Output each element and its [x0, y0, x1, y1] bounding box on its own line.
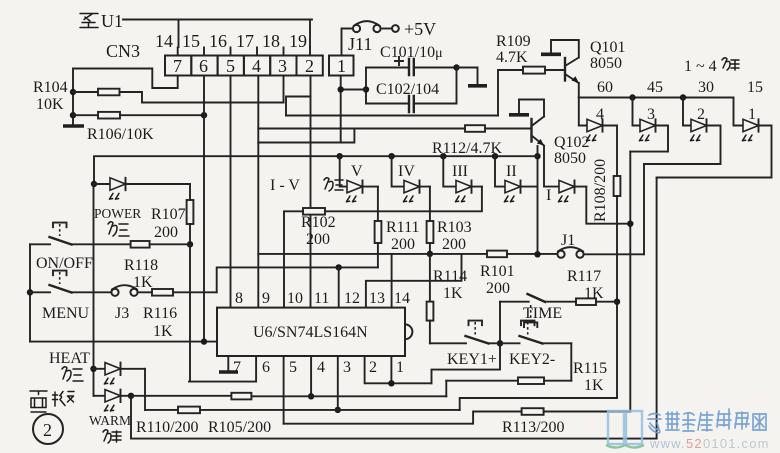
IC U6 body	[217, 308, 412, 356]
svg-text:14: 14	[394, 290, 410, 307]
switch MENU	[30, 271, 111, 322]
svg-text:HEAT: HEAT	[49, 350, 90, 367]
node LED II anode	[492, 153, 498, 159]
wire R105 row	[131, 395, 446, 398]
resistor R104	[98, 89, 120, 96]
svg-text:R113/200: R113/200	[502, 419, 565, 436]
node LED III anode	[440, 153, 446, 159]
svg-text:200: 200	[442, 236, 466, 253]
svg-text:III: III	[452, 163, 468, 180]
resistor R107	[187, 200, 194, 224]
wire bottom row	[131, 396, 657, 439]
terminal +5V	[392, 19, 436, 39]
svg-text:www.: www.	[649, 436, 686, 451]
svg-text:II: II	[506, 163, 517, 180]
node cap left	[363, 86, 369, 92]
node cap right	[453, 64, 459, 70]
label I - V red	[270, 177, 343, 194]
supply bar at Q101	[541, 52, 561, 56]
node R103 on J1 row	[427, 251, 433, 257]
node R106 right on pin6 line	[201, 112, 207, 118]
wire green anode bus	[579, 97, 734, 99]
svg-text:R104: R104	[33, 79, 68, 96]
node U6 pin3 on R110 row	[335, 407, 341, 413]
wire line A riser to R109	[498, 70, 523, 116]
node R118 right	[187, 241, 193, 247]
svg-text:1K: 1K	[584, 285, 604, 302]
node POWER anode	[91, 181, 97, 187]
svg-text:200: 200	[391, 236, 415, 253]
wire R107 bottom	[189, 224, 191, 244]
svg-text:TIME: TIME	[523, 305, 562, 322]
supply bar at Q102	[509, 113, 529, 117]
svg-text:R111: R111	[386, 219, 419, 236]
svg-text:R114: R114	[433, 268, 467, 285]
svg-text:18: 18	[262, 31, 280, 51]
wire cap node to ground	[457, 68, 478, 85]
wire CN3 pin1 down to cap loop and line C	[341, 76, 366, 143]
node R104 left	[70, 89, 76, 95]
node R117 junction	[614, 299, 620, 305]
wire R106 row left	[73, 114, 98, 116]
resistor R106	[98, 112, 120, 119]
wire left LED rail	[93, 184, 95, 396]
wire red anode bus	[94, 156, 538, 184]
svg-text:MENU: MENU	[42, 305, 90, 322]
svg-text:C102/104: C102/104	[376, 81, 439, 98]
svg-text:200: 200	[306, 231, 330, 248]
svg-text:5: 5	[226, 56, 235, 76]
wire Q101 emitter to green bus	[578, 83, 580, 98]
wire U6 pin12 stub	[338, 267, 340, 307]
svg-text:R116: R116	[143, 305, 177, 322]
svg-text:R115: R115	[573, 360, 607, 377]
wire R107 line down to U6 pin6 rail	[189, 244, 191, 381]
ground at C101	[468, 84, 487, 88]
wire line B pin9 branch to R112	[258, 128, 465, 130]
wire R111 bottom to rows	[377, 243, 379, 267]
node HEAT anode	[90, 366, 96, 372]
wire R114 bottom to KEY row	[429, 321, 431, 344]
wire R109 to Q101 base	[545, 69, 565, 71]
svg-text:Q101: Q101	[590, 39, 626, 56]
svg-text:19: 19	[289, 31, 307, 51]
wire R116 right	[173, 291, 217, 293]
wire R108 bottom long drop	[616, 196, 618, 398]
node U6 pin12	[336, 264, 342, 270]
svg-text:R118: R118	[124, 257, 158, 274]
wire R104 row left	[73, 91, 98, 93]
svg-text:R101: R101	[480, 263, 515, 280]
wire U6 pin3 stub	[337, 356, 339, 410]
wire CN3 pin4 drop to U6 pin9	[257, 76, 259, 308]
svg-text:R103: R103	[437, 219, 472, 236]
svg-text:R105/200: R105/200	[208, 419, 271, 436]
svg-text:POWER: POWER	[94, 206, 141, 221]
wire LED IV cathode drop	[429, 187, 431, 221]
wire Q102 collector to supply bar	[519, 100, 544, 117]
connector CN3 pin1 box	[329, 56, 354, 77]
node MENU left	[27, 289, 33, 295]
svg-text:IV: IV	[398, 163, 415, 180]
wire to-U1 top line	[123, 20, 312, 48]
wire U6 pin4 stub	[310, 356, 312, 396]
wire J11 left to CN3 pin1	[342, 29, 353, 56]
svg-text:R117: R117	[567, 268, 601, 285]
schematic number circle	[33, 414, 63, 444]
svg-text:1K: 1K	[153, 323, 173, 340]
wire R110 row	[145, 409, 460, 411]
wire CN3 pin2 jog to line A	[286, 97, 311, 116]
svg-text:U1: U1	[101, 11, 123, 31]
svg-text:1K: 1K	[443, 285, 463, 302]
switch KEY1+	[430, 321, 500, 368]
LED POWER	[94, 178, 190, 199]
wire HEAT cathode drop to R110 row	[144, 369, 146, 410]
ground at R104/R106 rail	[63, 124, 84, 128]
svg-text:2: 2	[43, 420, 52, 440]
resistor R112	[465, 125, 485, 132]
LED II	[495, 156, 538, 202]
svg-text:60: 60	[597, 79, 613, 96]
resistor R114	[427, 302, 434, 321]
svg-text:KEY1+: KEY1+	[447, 351, 497, 368]
svg-text:V: V	[351, 163, 363, 180]
svg-text:R107: R107	[151, 206, 186, 223]
wire left rail top	[29, 244, 31, 341]
resistor R111	[375, 221, 382, 243]
wire LED1 drop to bottom row	[656, 178, 658, 439]
connector CN3 pin ticks	[178, 48, 310, 56]
svg-text:4: 4	[252, 56, 261, 76]
svg-text:I: I	[546, 187, 551, 204]
connector CN3 body	[165, 56, 323, 77]
node U6 pin4 on R105 row	[308, 393, 314, 399]
wire J1 row from U6 pin9	[258, 253, 557, 255]
transistor Q102	[532, 117, 545, 146]
svg-text:1: 1	[337, 56, 346, 76]
watermark url	[649, 436, 770, 451]
wire J1 right to LED2 drop	[584, 253, 644, 255]
svg-text:12: 12	[344, 290, 360, 307]
node Q102 drop on J1 row	[534, 251, 540, 257]
svg-text:3: 3	[647, 106, 655, 123]
LED 1	[657, 98, 772, 178]
svg-text:11: 11	[314, 290, 329, 307]
svg-text:J3: J3	[115, 305, 129, 322]
wire LED3 junction drop	[629, 152, 631, 412]
svg-text:R102: R102	[301, 214, 336, 231]
capacitor C102	[366, 96, 457, 112]
svg-text:I - V: I - V	[270, 177, 300, 194]
wire U6 pin5 to R113 row	[283, 356, 285, 424]
svg-text:R110/200: R110/200	[136, 419, 199, 436]
wire U6 pin13 row	[366, 254, 462, 308]
resistor R101	[487, 251, 507, 258]
wire R110 row riser and row to R108 drop	[460, 398, 617, 410]
wire KEY2 right leg to R115 row	[570, 343, 572, 380]
LED V	[340, 156, 378, 202]
svg-text:J1: J1	[561, 232, 575, 249]
LED III	[443, 156, 482, 202]
wire capacitor loop left side	[365, 68, 367, 104]
node R106 left	[70, 112, 76, 118]
node WARM cathode	[128, 393, 134, 399]
switch TIME	[500, 294, 576, 327]
node LED3 anode	[629, 94, 635, 100]
svg-text:15: 15	[182, 31, 200, 51]
node LED2 anode	[680, 94, 686, 100]
svg-text:52: 52	[686, 436, 703, 451]
wire CN3 pin2 drop to U6 pin11	[310, 76, 312, 308]
switch KEY2-	[500, 321, 571, 368]
node LED IV anode	[388, 153, 394, 159]
node pin6 drop on U6 left row	[201, 338, 207, 344]
wire R106 row right	[120, 114, 204, 116]
label HEAT red	[62, 367, 83, 381]
wire U6 pin14 stub	[391, 254, 393, 308]
node KEY junction	[497, 340, 503, 346]
wire U6 pin6 to R107 rail	[189, 356, 256, 382]
LED I	[544, 146, 586, 202]
svg-text:7: 7	[173, 56, 182, 76]
svg-text:R106/10K: R106/10K	[87, 126, 154, 143]
svg-text:WARM: WARM	[89, 413, 131, 428]
LED HEAT	[94, 363, 146, 384]
wire line C	[258, 129, 354, 143]
LED 3	[630, 98, 668, 152]
wire J11 right to +5V terminal	[381, 28, 392, 30]
watermark site name	[648, 409, 766, 433]
svg-text:10K: 10K	[36, 96, 64, 113]
resistor R117	[576, 298, 596, 305]
label panel	[30, 391, 74, 412]
svg-text:KEY2-: KEY2-	[509, 351, 555, 368]
wire CN3 pin6 long drop to U6 left row	[203, 76, 205, 342]
wire LED4 cathode to R108	[616, 126, 618, 177]
wire R102 row pin10	[284, 187, 482, 308]
transistor Q101	[565, 58, 579, 84]
svg-text:3: 3	[343, 359, 351, 376]
switch ON/OFF	[30, 223, 131, 272]
svg-text:17: 17	[236, 31, 254, 51]
svg-text:C101/10μ: C101/10μ	[380, 44, 443, 61]
wire R113 row left	[284, 412, 522, 424]
svg-text:0101.com: 0101.com	[703, 436, 770, 451]
resistor R108	[614, 176, 621, 196]
svg-text:CN3: CN3	[106, 41, 140, 61]
resistor R118	[131, 241, 150, 248]
node LED I / LED3 junction	[627, 221, 633, 227]
LED 2	[644, 98, 721, 165]
svg-text:1: 1	[396, 359, 404, 376]
svg-text:R109: R109	[496, 33, 531, 50]
svg-text:3: 3	[278, 56, 287, 76]
svg-text:6: 6	[199, 56, 208, 76]
LED IV	[392, 156, 430, 202]
wire R118 right	[150, 243, 190, 245]
svg-text:1K: 1K	[584, 377, 604, 394]
jumper J1	[557, 232, 583, 258]
svg-text:R108/200: R108/200	[592, 159, 609, 222]
wire R115 row	[446, 380, 571, 382]
resistor R105	[231, 393, 251, 400]
label WARM green	[103, 430, 121, 443]
svg-text:1: 1	[748, 106, 756, 123]
svg-text:+5V: +5V	[404, 19, 436, 39]
ground at U6 pin7	[219, 370, 238, 374]
resistor R116	[152, 289, 173, 296]
svg-text:4: 4	[317, 359, 325, 376]
svg-text:45: 45	[647, 79, 663, 96]
resistor R102	[303, 208, 325, 215]
svg-text:Q102: Q102	[554, 134, 590, 151]
svg-text:200: 200	[154, 224, 178, 241]
wire Q102 emitter junction drop to J1 row	[537, 146, 539, 254]
svg-text:2: 2	[697, 106, 705, 123]
svg-text:ON/OFF: ON/OFF	[36, 255, 93, 272]
resistor R110	[178, 407, 200, 414]
svg-text:14: 14	[155, 31, 173, 51]
wire R105 row riser to R115 row	[445, 381, 447, 397]
jumper J11	[348, 21, 381, 54]
wire R117 to R108 drop	[596, 301, 617, 303]
wire R113 row right	[544, 411, 631, 413]
svg-text:5: 5	[289, 359, 297, 376]
svg-text:30: 30	[698, 79, 714, 96]
svg-text:16: 16	[209, 31, 227, 51]
jumper J3	[111, 285, 137, 322]
svg-text:2: 2	[369, 359, 377, 376]
wire LED2 drop to J1 row	[643, 164, 645, 254]
svg-text:13: 13	[369, 290, 385, 307]
node LED V anode	[337, 153, 343, 159]
wire CN3 pin5 drop to U6 pin8	[230, 76, 232, 308]
LED WARM	[94, 390, 132, 411]
wire J3 to R116	[138, 291, 152, 293]
wire Q101 collector to supply bar	[551, 40, 579, 58]
capacitor C101	[366, 57, 457, 75]
svg-text:2: 2	[305, 56, 314, 76]
resistor R113	[522, 408, 544, 415]
svg-text:200: 200	[486, 280, 510, 297]
svg-text:U6/SN74LS164N: U6/SN74LS164N	[253, 324, 368, 341]
svg-text:10: 10	[287, 290, 303, 307]
wire CN3 pin3 stub to R104 row	[283, 76, 285, 103]
wire R114 top	[429, 254, 431, 302]
wire LED I cathode to junction	[586, 187, 630, 224]
wire LED V cathode drop	[377, 187, 379, 221]
LED 4	[579, 98, 617, 141]
wire CN3 pin7 jog to left rail	[73, 69, 178, 125]
resistor R103	[427, 221, 434, 243]
wire R112 to Q102 base	[485, 128, 532, 130]
node U6 pin1	[388, 380, 394, 386]
resistor R109	[523, 67, 545, 74]
wire line A to R109 riser	[286, 115, 498, 117]
wire U6 pin2 pin1 row	[365, 356, 432, 383]
node pin1 branch	[338, 86, 344, 92]
wire TIME left leg	[499, 302, 501, 344]
watermark book icon	[606, 411, 644, 448]
label POWER red	[108, 222, 129, 236]
svg-text:15: 15	[747, 79, 763, 96]
svg-text:6: 6	[262, 359, 270, 376]
svg-text:8050: 8050	[554, 150, 586, 167]
wire POWER cathode to R107	[189, 184, 191, 200]
wire U6 left row	[30, 341, 217, 343]
wire KEY junction drop	[432, 343, 501, 383]
label 1 - 4 green	[684, 58, 739, 75]
svg-text:9: 9	[262, 290, 270, 307]
svg-text:8050: 8050	[590, 55, 622, 72]
svg-text:1 ~ 4: 1 ~ 4	[684, 58, 717, 75]
wire R103 bottom	[429, 243, 431, 254]
wire R116 riser and pin12 row	[217, 267, 378, 292]
svg-text:J11: J11	[348, 34, 372, 54]
resistor R115	[518, 377, 544, 384]
label 至U1	[80, 11, 123, 31]
svg-text:8: 8	[235, 290, 243, 307]
wire R104 row right	[120, 92, 284, 103]
wire capacitor loop right side	[456, 68, 458, 104]
wire U6 pin7 ground stub	[227, 356, 229, 371]
svg-text:4.7K: 4.7K	[496, 49, 528, 66]
node red bus right end	[534, 153, 540, 159]
